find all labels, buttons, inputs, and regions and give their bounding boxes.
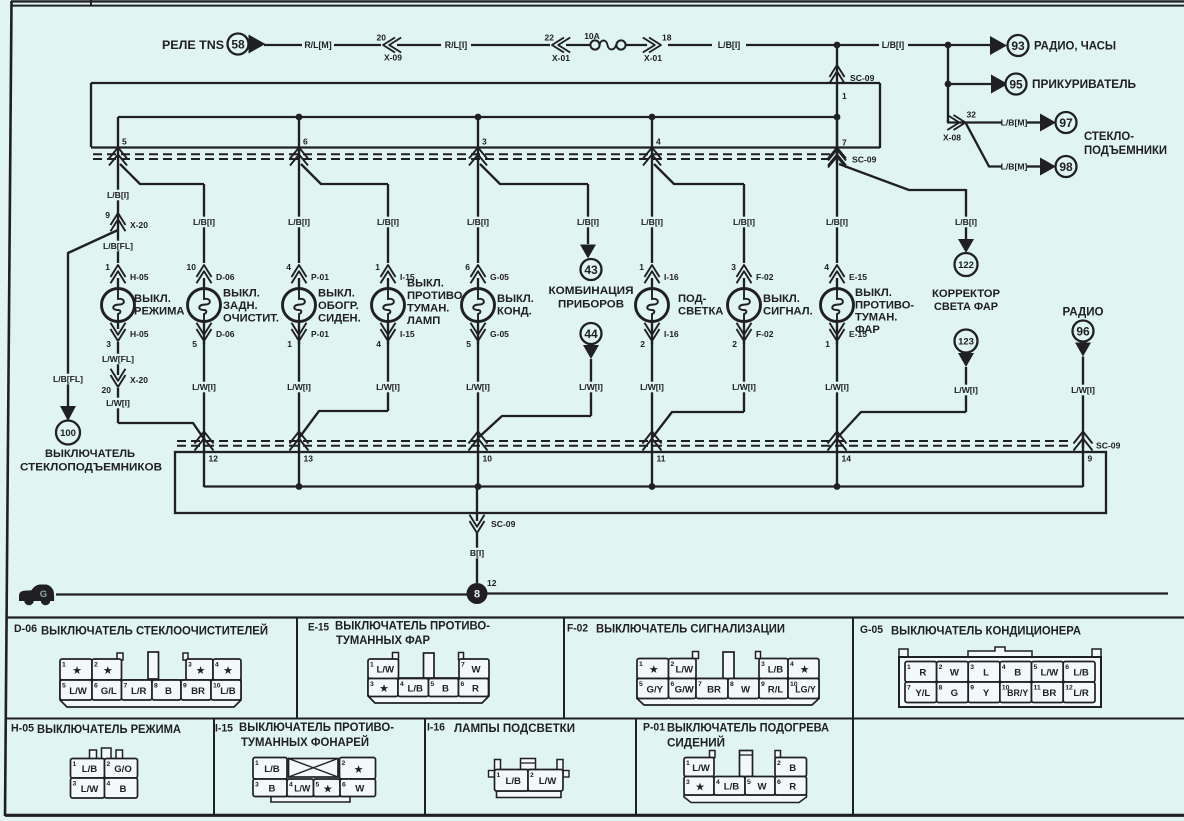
label L/B[I] branch H-05 xyxy=(100,190,136,201)
svg-text:ВЫКЛЮЧАТЕЛЬ РЕЖИМА: ВЫКЛЮЧАТЕЛЬ РЕЖИМА xyxy=(37,722,181,736)
svg-text:L/W: L/W xyxy=(69,686,88,697)
svg-text:1: 1 xyxy=(105,262,110,272)
svg-text:3: 3 xyxy=(370,681,374,688)
svg-text:6: 6 xyxy=(465,262,470,272)
arrow out of 44 xyxy=(583,345,599,359)
svg-text:ПРОТИВО-: ПРОТИВО- xyxy=(855,299,914,311)
route 123 wire to bottom bus xyxy=(837,412,966,438)
connector SC-09 chevron at bus x=837 xyxy=(828,150,877,168)
connector G-05 pin 5 chevron (bottom) xyxy=(466,323,509,349)
wire L/B[I] into I-15 xyxy=(387,184,389,263)
lamp mode switch H-05 xyxy=(102,278,135,322)
bottom bus chevron pin 12 xyxy=(195,432,214,444)
svg-text:★: ★ xyxy=(103,665,113,677)
svg-text:L: L xyxy=(983,668,989,679)
svg-text:I-16: I-16 xyxy=(664,272,679,282)
wire below lamp I-15 xyxy=(387,322,389,345)
svg-text:ВЫКЛЮЧАТЕЛЬ СТЕКЛООЧИСТИТЕЛЕЙ: ВЫКЛЮЧАТЕЛЬ СТЕКЛООЧИСТИТЕЛЕЙ xyxy=(41,623,268,638)
svg-text:ВЫКЛЮЧАТЕЛЬ ПРОТИВО-: ВЫКЛЮЧАТЕЛЬ ПРОТИВО- xyxy=(335,619,490,633)
arrow into 95 xyxy=(991,75,1008,94)
wire L/B[I] into I-16 xyxy=(651,166,653,263)
svg-text:G/L: G/L xyxy=(101,686,117,697)
svg-text:ВЫКЛ.: ВЫКЛ. xyxy=(223,288,260,300)
wire below lamp P-01 xyxy=(298,322,300,345)
ground point 8 xyxy=(467,578,497,604)
page-ref circle 98 xyxy=(1056,156,1077,177)
svg-text:L/B: L/B xyxy=(264,764,280,775)
junction node at SC-09 drop xyxy=(834,42,841,49)
label fog lamp switch xyxy=(407,278,466,328)
svg-text:W: W xyxy=(757,782,767,793)
junction SC-09 on inner header wire xyxy=(834,114,841,121)
svg-text:8: 8 xyxy=(154,683,158,690)
tap wire from bus 837 to branch 966 xyxy=(839,164,966,190)
svg-text:КОМБИНАЦИЯ: КОМБИНАЦИЯ xyxy=(549,285,634,297)
svg-text:★: ★ xyxy=(379,683,389,695)
wire to connector X-09 xyxy=(334,44,381,46)
svg-text:W: W xyxy=(950,668,960,679)
tap wire to window lifter switch 100 xyxy=(68,230,118,406)
svg-text:ВЫКЛ.: ВЫКЛ. xyxy=(134,293,171,305)
svg-text:ПОД-: ПОД- xyxy=(678,293,707,305)
table cell I-16 illumination lamps header xyxy=(427,721,575,735)
svg-text:4: 4 xyxy=(286,262,291,272)
svg-text:3: 3 xyxy=(731,262,736,272)
wire below lamp I-16 xyxy=(651,322,653,345)
svg-text:B: B xyxy=(120,784,127,795)
connector drawing G-05 xyxy=(899,647,1101,707)
svg-text:G/W: G/W xyxy=(675,684,695,695)
svg-text:L/B[I]: L/B[I] xyxy=(577,217,599,227)
ground rail wire xyxy=(487,592,1168,594)
svg-text:L/B: L/B xyxy=(1073,668,1089,679)
svg-text:G: G xyxy=(40,589,47,600)
svg-text:B: B xyxy=(165,686,172,697)
svg-text:L/W[I]: L/W[I] xyxy=(466,382,490,392)
branch drop wire x=478 xyxy=(477,117,479,166)
svg-text:4: 4 xyxy=(289,782,293,789)
svg-text:2: 2 xyxy=(640,339,645,349)
svg-text:2: 2 xyxy=(671,661,675,668)
svg-text:L/B: L/B xyxy=(82,764,98,775)
diagram/table separator line xyxy=(6,616,1184,618)
svg-text:2: 2 xyxy=(939,664,943,671)
wire L/W[I] below P-01 xyxy=(298,342,300,432)
connector drawing I-16 xyxy=(489,759,570,798)
wire L/W[I] below I-16 xyxy=(651,342,653,432)
svg-text:9: 9 xyxy=(183,683,187,690)
junction in ground box x=652 xyxy=(649,483,656,490)
svg-text:ВЫКЛ.: ВЫКЛ. xyxy=(497,293,534,305)
lamp seat heater switch xyxy=(283,278,316,322)
page left border xyxy=(5,1,12,816)
wire L/W[I] from 123 xyxy=(965,367,967,412)
wire below lamp E-15 xyxy=(836,322,838,345)
svg-text:L/B[I]: L/B[I] xyxy=(377,217,399,227)
ground box inner wire xyxy=(204,485,1083,487)
svg-text:L/W[I]: L/W[I] xyxy=(287,382,311,392)
svg-text:8: 8 xyxy=(474,589,480,601)
svg-text:B: B xyxy=(1014,668,1021,679)
lamp rear wiper switch xyxy=(188,278,221,322)
svg-text:L/B[I]: L/B[I] xyxy=(718,40,741,50)
label A/C switch xyxy=(497,293,534,318)
svg-text:G-05: G-05 xyxy=(860,624,883,636)
svg-text:11: 11 xyxy=(1034,685,1041,692)
svg-text:3: 3 xyxy=(106,339,111,349)
svg-text:L/W[I]: L/W[I] xyxy=(825,382,849,392)
svg-text:ПРИКУРИВАТЕЛЬ: ПРИКУРИВАТЕЛЬ xyxy=(1032,77,1136,91)
wire L/B[I] into D-06 xyxy=(203,184,205,263)
svg-text:L/W: L/W xyxy=(1041,668,1060,679)
svg-text:X-08: X-08 xyxy=(943,133,961,143)
connector I-15 pin 4 chevron (bottom) xyxy=(376,323,415,349)
svg-text:ВЫКЛЮЧАТЕЛЬ КОНДИЦИОНЕРА: ВЫКЛЮЧАТЕЛЬ КОНДИЦИОНЕРА xyxy=(891,624,1081,638)
wire L/B[I] segment xyxy=(668,44,712,46)
svg-text:SC-09: SC-09 xyxy=(850,73,875,83)
svg-text:9: 9 xyxy=(761,681,765,688)
tap wire from bus 299 to branch 388 xyxy=(301,164,388,184)
svg-text:B: B xyxy=(442,683,449,694)
table column dividers row 2 xyxy=(214,719,853,816)
svg-text:6: 6 xyxy=(777,779,781,786)
table cell G-05 A/C switch header xyxy=(860,624,1081,638)
svg-text:SC-09: SC-09 xyxy=(852,155,877,165)
svg-text:12: 12 xyxy=(1065,685,1073,692)
svg-text:20: 20 xyxy=(377,33,387,43)
branch drop wire x=837 xyxy=(836,117,838,166)
junction in ground box x=837 xyxy=(834,483,841,490)
page-ref circle 96 radio xyxy=(1073,321,1094,342)
svg-text:★: ★ xyxy=(800,664,810,676)
svg-text:РАДИО, ЧАСЫ: РАДИО, ЧАСЫ xyxy=(1034,39,1116,53)
svg-text:2: 2 xyxy=(777,760,781,767)
svg-text:L/B[I]: L/B[I] xyxy=(826,217,848,227)
tap wire from bus 652 to branch 744 xyxy=(654,164,744,184)
bottom bus chevron pin 13 xyxy=(290,432,309,444)
svg-text:G/Y: G/Y xyxy=(646,684,663,695)
arrow out of 96 xyxy=(1075,343,1091,357)
svg-text:Y: Y xyxy=(983,688,990,699)
connector H-05 pin 1 chevron (top) xyxy=(105,262,148,283)
connector F-02 pin 2 chevron (bottom) xyxy=(732,323,773,349)
svg-text:97: 97 xyxy=(1059,116,1073,130)
svg-text:1: 1 xyxy=(73,761,77,768)
svg-text:44: 44 xyxy=(584,327,598,341)
wire R/L[I] segment xyxy=(397,44,441,46)
svg-text:L/W[I]: L/W[I] xyxy=(732,382,756,392)
page-ref circle 100 window lifter switch xyxy=(20,421,162,474)
svg-text:КОНД.: КОНД. xyxy=(497,306,532,318)
svg-text:I-15: I-15 xyxy=(400,329,415,339)
arrow into 97 xyxy=(1040,114,1056,132)
svg-text:F-02: F-02 xyxy=(756,272,774,282)
svg-text:I-16: I-16 xyxy=(664,329,679,339)
wire below lamp F-02 xyxy=(743,322,745,345)
svg-text:L/B[M]: L/B[M] xyxy=(1001,162,1028,172)
svg-text:W: W xyxy=(471,665,481,676)
connector I-16 pin 2 chevron (bottom) xyxy=(640,323,679,349)
svg-text:H-05: H-05 xyxy=(11,723,34,735)
connector D-06 pin 5 chevron (bottom) xyxy=(192,323,234,349)
page-ref circle 123 headlight leveling xyxy=(955,330,978,353)
table column dividers row 1 xyxy=(297,618,853,719)
svg-text:5: 5 xyxy=(316,782,320,789)
wire below lamp H-05 xyxy=(117,322,119,330)
svg-text:L/B[I]: L/B[I] xyxy=(193,217,215,227)
svg-text:★: ★ xyxy=(354,764,364,776)
svg-text:SC-09: SC-09 xyxy=(1096,441,1121,451)
svg-text:X-20: X-20 xyxy=(130,220,148,230)
svg-text:ВЫКЛЮЧАТЕЛЬ СИГНАЛИЗАЦИИ: ВЫКЛЮЧАТЕЛЬ СИГНАЛИЗАЦИИ xyxy=(596,622,785,636)
label rear wiper switch xyxy=(223,288,279,325)
svg-text:4: 4 xyxy=(656,137,661,147)
svg-text:123: 123 xyxy=(958,336,974,347)
svg-text:L/W: L/W xyxy=(675,664,694,675)
arrow into 100 xyxy=(60,406,76,421)
svg-text:E-15: E-15 xyxy=(849,272,867,282)
svg-text:L/B[I]: L/B[I] xyxy=(467,217,489,227)
svg-text:1: 1 xyxy=(62,662,66,669)
svg-text:ОЧИСТИТ.: ОЧИСТИТ. xyxy=(223,313,279,325)
connector drawing F-02 xyxy=(637,652,819,706)
connector X-20 pin 20 chevron (bottom) xyxy=(102,369,149,395)
connector G-05 pin 6 chevron (top) xyxy=(465,262,509,283)
svg-text:3: 3 xyxy=(482,137,487,147)
svg-text:2: 2 xyxy=(94,662,98,669)
svg-text:58: 58 xyxy=(231,37,245,51)
lamp illumination lamps xyxy=(636,278,669,322)
svg-text:BR: BR xyxy=(1042,688,1056,699)
ground exit wire from box xyxy=(476,487,478,522)
svg-text:8: 8 xyxy=(730,681,734,688)
svg-text:ВЫКЛЮЧАТЕЛЬ ПРОТИВО-: ВЫКЛЮЧАТЕЛЬ ПРОТИВО- xyxy=(239,720,394,734)
wire below lamp G-05 xyxy=(477,322,479,345)
connector E-15 pin 4 chevron (top) xyxy=(824,262,867,283)
label L/W[I] branch 1 xyxy=(117,388,119,423)
branch drop wire x=118 xyxy=(117,117,119,166)
wire to radio branch junction xyxy=(908,44,948,46)
wire to SC-09 junction xyxy=(746,44,837,46)
wire L/W[I] below I-15 routed to bus xyxy=(387,342,389,411)
svg-text:3: 3 xyxy=(761,661,765,668)
wire L/B[I] into G-05 xyxy=(477,166,479,263)
wire pin 10 into ground box xyxy=(477,432,479,487)
svg-text:ВЫКЛ.: ВЫКЛ. xyxy=(318,288,355,300)
svg-text:4: 4 xyxy=(400,681,404,688)
wire L/W[I] below D-06 xyxy=(203,342,205,432)
svg-text:6: 6 xyxy=(1065,664,1069,671)
svg-text:L/B: L/B xyxy=(506,776,522,787)
svg-text:4: 4 xyxy=(716,779,720,786)
arrow out of 123 xyxy=(958,353,974,367)
svg-text:13: 13 xyxy=(304,454,314,464)
bottom bus chevron pin 10 xyxy=(469,432,488,444)
svg-text:L/B: L/B xyxy=(408,683,424,694)
svg-text:L/B[I]: L/B[I] xyxy=(882,40,905,50)
svg-text:SC-09: SC-09 xyxy=(491,519,516,529)
svg-text:L/W: L/W xyxy=(81,784,100,795)
svg-text:E-15: E-15 xyxy=(849,329,867,339)
wire from fuse to connector X-01 pin 18 xyxy=(625,44,647,46)
svg-text:СИДЕН.: СИДЕН. xyxy=(318,313,361,325)
wire pin 14 into ground box xyxy=(836,432,838,487)
label seat heater switch xyxy=(318,288,361,325)
svg-text:9: 9 xyxy=(1088,454,1093,464)
connector drawing P-01 xyxy=(684,751,807,803)
svg-text:★: ★ xyxy=(323,783,333,795)
bus chevron x=118 xyxy=(109,148,127,159)
page top border lines xyxy=(11,0,1184,6)
svg-text:L/B[I]: L/B[I] xyxy=(955,217,977,227)
svg-text:7: 7 xyxy=(907,685,911,692)
svg-text:ЗАДН.: ЗАДН. xyxy=(223,300,258,312)
svg-text:E-15: E-15 xyxy=(308,622,329,634)
connector X-01 pin 18 chevron xyxy=(643,33,672,64)
svg-text:L/W[I]: L/W[I] xyxy=(106,398,130,408)
svg-text:4: 4 xyxy=(1002,664,1006,671)
label front fog switch xyxy=(855,287,914,336)
svg-text:P-01: P-01 xyxy=(311,329,329,339)
harness bus dashed wire 1 xyxy=(93,153,833,155)
svg-text:G: G xyxy=(951,688,958,699)
lamp fog lamp switch xyxy=(372,278,405,322)
page-ref circle 43 combination meter xyxy=(549,259,634,311)
svg-text:L/W[I]: L/W[I] xyxy=(640,382,664,392)
svg-text:L/W: L/W xyxy=(294,784,311,794)
svg-text:L/R: L/R xyxy=(1073,688,1089,699)
svg-text:5: 5 xyxy=(62,683,66,690)
svg-text:9: 9 xyxy=(105,210,110,220)
tap wire from bus 118 to branch 204 xyxy=(120,164,204,184)
svg-text:СИГНАЛ.: СИГНАЛ. xyxy=(763,306,813,318)
svg-text:ТУМАННЫХ ФАР: ТУМАННЫХ ФАР xyxy=(336,633,430,647)
svg-text:4: 4 xyxy=(790,661,794,668)
svg-text:L/W[I]: L/W[I] xyxy=(1071,385,1095,395)
svg-text:L/W[I]: L/W[I] xyxy=(192,382,216,392)
svg-text:ПОДЪЕМНИКИ: ПОДЪЕМНИКИ xyxy=(1084,143,1167,157)
svg-text:5: 5 xyxy=(466,339,471,349)
svg-text:2: 2 xyxy=(530,772,534,779)
svg-text:1: 1 xyxy=(639,661,643,668)
svg-text:R: R xyxy=(919,668,926,679)
svg-text:ТУМАН.: ТУМАН. xyxy=(407,303,449,315)
harness bus dashed wire 2 xyxy=(93,158,833,160)
svg-text:11: 11 xyxy=(657,454,666,464)
svg-text:6: 6 xyxy=(461,681,465,688)
svg-text:12: 12 xyxy=(487,578,497,588)
junction in ground box x=299 xyxy=(296,483,303,490)
branch drop wire x=652 xyxy=(651,117,653,166)
lamp A/C switch xyxy=(462,278,495,322)
connector I-15 pin 1 chevron (top) xyxy=(375,262,415,283)
svg-text:R: R xyxy=(789,782,796,793)
svg-text:9: 9 xyxy=(970,685,974,692)
svg-text:★: ★ xyxy=(72,665,82,677)
arrow out of 58 xyxy=(249,35,266,54)
wire from feed to connector SC-09 pin 1 xyxy=(836,45,838,164)
page-ref circle 97 xyxy=(1056,112,1077,133)
svg-text:РЕЛЕ TNS: РЕЛЕ TNS xyxy=(162,38,224,52)
svg-text:10: 10 xyxy=(483,454,493,464)
svg-text:B[I]: B[I] xyxy=(470,548,484,558)
route 44 wire to bottom bus xyxy=(478,416,591,438)
bus chevron x=299 xyxy=(290,148,308,159)
svg-text:1: 1 xyxy=(497,772,501,779)
svg-text:H-05: H-05 xyxy=(130,329,149,339)
bus chevron x=478 xyxy=(469,148,487,159)
svg-text:РАДИО: РАДИО xyxy=(1063,305,1104,319)
page-ref circle 122 headlight leveling xyxy=(932,253,1001,313)
svg-text:D-06: D-06 xyxy=(216,272,235,282)
svg-text:7: 7 xyxy=(698,681,702,688)
table row divider xyxy=(6,718,1184,720)
label L/W[FL] xyxy=(117,342,119,375)
arrow into 122 xyxy=(958,239,974,253)
svg-text:5: 5 xyxy=(122,137,127,147)
svg-text:6: 6 xyxy=(342,782,346,789)
connector X-09 pin 20 chevron xyxy=(377,33,403,63)
svg-text:4: 4 xyxy=(215,662,219,669)
svg-text:1: 1 xyxy=(639,262,644,272)
table cell H-05 mode switch header xyxy=(11,722,181,736)
svg-text:1: 1 xyxy=(907,664,911,671)
junction node lighter xyxy=(945,81,952,88)
svg-text:5: 5 xyxy=(639,681,643,688)
svg-text:3: 3 xyxy=(686,779,690,786)
svg-text:96: 96 xyxy=(1076,324,1090,338)
svg-text:ВЫКЛ.: ВЫКЛ. xyxy=(407,278,444,290)
lamp front fog switch xyxy=(821,278,854,322)
svg-text:2: 2 xyxy=(342,760,346,767)
svg-text:КОРРЕКТОР: КОРРЕКТОР xyxy=(932,288,1001,300)
wire L/W[I] below G-05 xyxy=(477,342,479,432)
connector drawing H-05 xyxy=(71,748,138,798)
label hazard switch xyxy=(763,293,813,318)
svg-text:98: 98 xyxy=(1059,160,1073,174)
svg-text:3: 3 xyxy=(188,662,192,669)
connector SC-09 chevron (top) xyxy=(830,65,875,83)
svg-text:L/W: L/W xyxy=(692,763,711,774)
svg-text:ВЫКЛЮЧАТЕЛЬ: ВЫКЛЮЧАТЕЛЬ xyxy=(45,448,135,460)
svg-text:4: 4 xyxy=(107,781,111,788)
svg-text:L/W[I]: L/W[I] xyxy=(579,382,603,392)
svg-text:F-02: F-02 xyxy=(756,329,774,339)
connector P-01 pin 1 chevron (bottom) xyxy=(287,323,329,349)
harness bus top solid wire xyxy=(91,146,880,148)
table cell E-15 front fog switch header xyxy=(308,619,490,648)
svg-text:★: ★ xyxy=(649,664,659,676)
bottom harness bus dashed wire 2 xyxy=(177,445,1072,447)
connector X-01 pin 22 chevron xyxy=(545,33,571,64)
svg-text:G/O: G/O xyxy=(114,764,132,775)
svg-text:6: 6 xyxy=(94,683,98,690)
page bottom border xyxy=(5,814,1184,817)
svg-text:18: 18 xyxy=(662,33,672,43)
svg-text:L/W: L/W xyxy=(539,776,558,787)
svg-text:LG/Y: LG/Y xyxy=(795,684,816,694)
tap wire from bus 478 to branch 588 xyxy=(480,164,588,184)
svg-text:12: 12 xyxy=(209,454,219,464)
connector I-16 pin 1 chevron (top) xyxy=(639,262,679,283)
svg-text:РЕЖИМА: РЕЖИМА xyxy=(134,306,184,318)
connector D-06 pin 10 chevron (top) xyxy=(187,262,235,283)
svg-text:20: 20 xyxy=(102,385,112,395)
junction on inner header wire x=299 xyxy=(296,114,303,121)
junction on inner header wire x=652 xyxy=(649,114,656,121)
svg-text:D-06: D-06 xyxy=(216,329,235,339)
svg-text:СТЕКЛОПОДЪЕМНИКОВ: СТЕКЛОПОДЪЕМНИКОВ xyxy=(20,462,162,474)
